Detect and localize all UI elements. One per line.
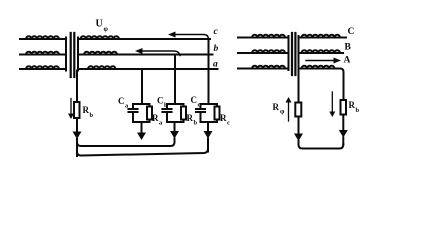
- capacitor Cb plates: [163, 109, 172, 112]
- label C: [348, 27, 355, 37]
- wire neutral to bus right: [298, 141, 300, 145]
- wire drop branch a: [141, 69, 143, 104]
- RC load box phase b: [167, 104, 184, 122]
- svg-text:C: C: [118, 96, 125, 106]
- svg-text:R: R: [220, 113, 227, 123]
- svg-text:φ: φ: [280, 108, 285, 116]
- wire phase a: [113, 68, 218, 70]
- label Rphi: [273, 102, 286, 116]
- wire below resistor Rb right: [342, 115, 344, 130]
- winding secondary c: [78, 36, 120, 39]
- wire branch b to inner bus: [174, 139, 176, 143]
- svg-text:b: b: [356, 107, 360, 114]
- label Rc: [220, 113, 230, 127]
- wire below box c: [207, 122, 209, 131]
- label Ca: [118, 96, 129, 110]
- winding primary left phase 1: [20, 36, 66, 39]
- primary bus bar right transformer: [288, 36, 290, 70]
- primary bus bar left transformer: [65, 38, 67, 71]
- svg-text:R: R: [349, 100, 356, 110]
- label Ub: [96, 19, 109, 34]
- wire phase b: [117, 54, 213, 56]
- arrowhead branch b: [170, 131, 179, 139]
- resistor Rb right: [341, 100, 347, 115]
- label b: [214, 44, 219, 54]
- capacitor Cc plates: [196, 109, 205, 112]
- wire drop branch b: [174, 55, 176, 105]
- transformer T1 core: [71, 33, 75, 77]
- wire below resistor Rb: [76, 118, 78, 131]
- wire branch A to bus: [342, 138, 344, 145]
- secondary star bar right transformer: [298, 36, 300, 70]
- secondary star bar left transformer: [77, 38, 79, 71]
- resistor Rphi: [295, 103, 301, 117]
- wire drop branch c: [208, 40, 210, 105]
- svg-text:R: R: [273, 102, 280, 112]
- svg-text:b: b: [214, 44, 219, 54]
- winding secondary C: [299, 35, 347, 38]
- transformer T2 core: [292, 33, 295, 75]
- resistor Rb load: [181, 107, 186, 120]
- return bus right: [299, 145, 344, 149]
- svg-text:c: c: [227, 120, 230, 127]
- resistor Ra: [147, 107, 152, 120]
- label Ra: [152, 113, 163, 127]
- wire neutral drop left: [76, 71, 78, 103]
- arrowhead branch A: [339, 130, 348, 138]
- svg-text:R: R: [187, 113, 194, 123]
- winding primary left phase 3: [20, 66, 66, 69]
- arrowhead neutral right: [294, 134, 303, 142]
- inner return bus: [77, 139, 175, 147]
- label Rb right: [349, 100, 360, 114]
- svg-text:a: a: [213, 60, 218, 70]
- svg-text:R: R: [83, 105, 90, 115]
- wire branch c to outer bus: [207, 139, 209, 152]
- label Cc: [191, 95, 201, 109]
- RC load box phase a: [133, 104, 150, 122]
- wire below box b: [174, 122, 176, 131]
- winding secondary B: [299, 50, 344, 53]
- svg-text:C: C: [348, 27, 355, 37]
- current arrow on phase c: [168, 32, 209, 40]
- svg-text:φ: φ: [104, 25, 109, 33]
- svg-text:C: C: [191, 95, 198, 105]
- label Rb neutral left: [83, 105, 94, 119]
- label B: [345, 43, 352, 53]
- svg-text:c: c: [198, 102, 201, 109]
- label Rb load: [187, 113, 198, 127]
- wire below box a: [141, 122, 143, 132]
- capacitor Ca plates: [129, 109, 138, 112]
- svg-text:U: U: [96, 19, 103, 30]
- wire neutral to buses: [76, 139, 78, 156]
- RC load box phase c: [201, 104, 218, 122]
- arrowhead branch c: [204, 131, 213, 139]
- svg-text:a: a: [159, 120, 163, 127]
- label c: [214, 27, 219, 37]
- current arrow on phase A: [306, 58, 341, 64]
- svg-text:b: b: [90, 112, 94, 119]
- label Cb: [157, 96, 168, 110]
- svg-text:C: C: [157, 96, 164, 106]
- wire phase c: [120, 38, 211, 40]
- wire neutral drop right: [298, 70, 300, 103]
- label a: [213, 60, 218, 70]
- svg-text:R: R: [152, 113, 159, 123]
- resistor Rb neutral left: [74, 102, 80, 118]
- svg-text:b: b: [194, 120, 198, 127]
- wire phase A corner down: [337, 69, 344, 101]
- current annotation arrow phase A branch: [329, 92, 335, 117]
- winding primary right phase 2: [238, 50, 289, 53]
- label A: [344, 56, 351, 66]
- svg-text:b: b: [164, 102, 168, 109]
- winding secondary a: [78, 66, 116, 69]
- svg-text:A: A: [344, 56, 351, 66]
- current annotation arrow neutral right: [286, 97, 292, 121]
- current arrow on phase b: [135, 48, 180, 56]
- resistor Rc: [215, 107, 220, 120]
- svg-text:c: c: [214, 27, 219, 37]
- arrowhead branch a: [137, 133, 146, 141]
- current annotation arrow neutral left: [68, 99, 74, 120]
- winding primary left phase 2: [20, 52, 66, 55]
- winding primary right phase 1: [238, 35, 289, 38]
- wire below resistor Rphi: [298, 117, 300, 134]
- winding secondary A: [299, 66, 338, 69]
- outer return bus: [77, 149, 208, 156]
- svg-text:B: B: [345, 43, 352, 53]
- winding secondary b: [78, 52, 117, 55]
- arrowhead neutral left: [73, 132, 82, 140]
- winding primary right phase 3: [238, 66, 289, 69]
